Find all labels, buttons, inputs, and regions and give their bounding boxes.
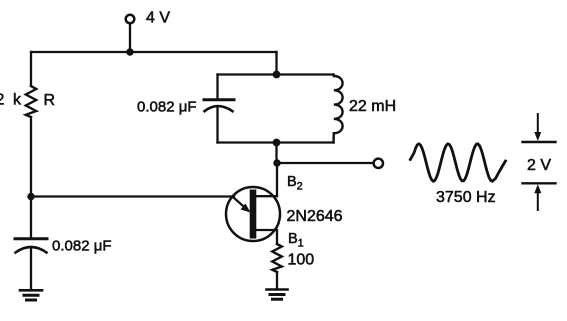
capacitor C1 curved plate	[16, 247, 47, 253]
wire stub top rail to tank top	[275, 52, 277, 75]
inductor L 22 mH	[334, 75, 343, 143]
wire emitter	[31, 195, 234, 197]
wire tank left edge upper	[216, 75, 218, 100]
junction dot at top rail	[126, 48, 133, 55]
wire B2 lead	[256, 163, 277, 196]
svg-text:2: 2	[0, 92, 5, 109]
node junction dot (emitter node)	[27, 193, 34, 200]
transistor Q1 2N2646 body	[226, 187, 280, 241]
wire B1 lead	[256, 230, 277, 244]
svg-text:0.082 μF: 0.082 μF	[137, 99, 197, 116]
capacitor C2 curved plate	[205, 106, 233, 111]
svg-text:2N2646: 2N2646	[287, 208, 343, 225]
capacitor C1 0.082 uF flat plate	[15, 237, 47, 240]
svg-text:4 V: 4 V	[146, 10, 170, 27]
wire capacitor to ground	[30, 248, 32, 290]
junction dot tank bottom	[273, 139, 281, 147]
dimension bar top	[523, 141, 556, 143]
resistor R 2 k	[26, 86, 36, 117]
ground right	[267, 290, 288, 300]
svg-text:100: 100	[288, 251, 315, 268]
transistor Q1 emitter arrow	[234, 198, 248, 210]
wire from 4V terminal to top rail	[129, 24, 131, 52]
svg-text:0.082 μF: 0.082 μF	[52, 238, 112, 255]
svg-text:2 V: 2 V	[527, 157, 551, 174]
wire tank bottom to B2 node	[275, 143, 277, 164]
output terminal	[374, 159, 383, 168]
wire top rail	[31, 51, 277, 53]
resistor R2 100	[272, 244, 282, 272]
power terminal 4 V	[126, 15, 135, 24]
svg-text:3750 Hz: 3750 Hz	[436, 189, 496, 206]
capacitor C2 0.082 uF flat plate	[204, 98, 234, 101]
wire tank left edge lower	[216, 107, 218, 142]
sine waveform	[410, 144, 505, 181]
wire tank top rail	[218, 73, 334, 75]
svg-text:k: k	[13, 92, 22, 109]
junction dot tank top	[273, 71, 281, 79]
svg-text:22 mH: 22 mH	[349, 98, 396, 115]
wire resistor to ground	[276, 272, 278, 289]
svg-text:R: R	[44, 92, 56, 109]
dimension arrow bottom	[537, 190, 539, 210]
wire output	[277, 162, 373, 164]
node B2 junction dot	[273, 159, 280, 166]
ground left	[20, 290, 42, 300]
svg-text:B2: B2	[287, 174, 303, 193]
dimension bar bottom	[523, 182, 556, 184]
wire from node down to capacitor	[30, 197, 32, 239]
dimension arrow top	[537, 114, 539, 135]
wire left branch middle	[30, 117, 32, 197]
svg-text:B1: B1	[288, 231, 304, 250]
transistor Q1 base bar	[250, 190, 257, 239]
wire left branch upper	[30, 52, 32, 86]
wire tank bottom rail	[218, 141, 334, 143]
